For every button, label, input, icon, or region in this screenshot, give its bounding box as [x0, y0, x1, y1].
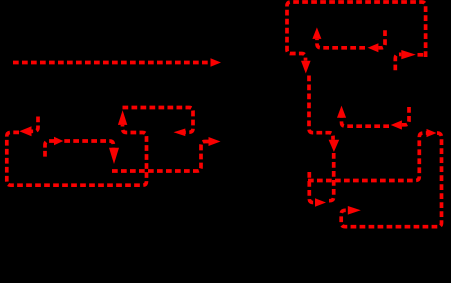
node P7 head down: [329, 140, 340, 152]
wire P4b line right then down: [64, 141, 113, 148]
wire P8 inner line left-up: [317, 39, 365, 48]
wire P11 mid line left-up: [342, 118, 390, 126]
wire P1 elbow down-left: [32, 117, 39, 132]
node P10 head right: [401, 50, 416, 59]
node P13 head right: [427, 129, 437, 137]
wire P6 top right rectangle: [287, 2, 426, 61]
wire P5 lower line to right elbow: [112, 142, 209, 172]
node P1 head left: [19, 126, 31, 136]
node P4b head down: [109, 148, 119, 164]
wire P12 mid elbow down-left: [402, 107, 409, 125]
node P16 head right: [348, 206, 361, 215]
wire P7 long descender to box: [309, 76, 333, 140]
node P14 head right: [315, 198, 326, 207]
node P4a head right: [54, 137, 63, 146]
wire P15 descender ending left: [328, 153, 334, 201]
node P2 head up: [118, 110, 127, 125]
node P8 head up: [312, 27, 321, 39]
wire P9 inner elbow down-left: [378, 30, 385, 48]
node P12 head left: [391, 120, 402, 129]
node P6 head down: [301, 61, 311, 74]
wire P10 stub up-right: [395, 54, 401, 70]
wire P10 trailing dash: [418, 53, 425, 57]
wire long top arrow shaft: [13, 61, 214, 65]
node long top arrow head: [211, 58, 222, 67]
node P9 head left: [368, 43, 379, 52]
node P3 head left: [174, 129, 186, 137]
wire P4a stub up-right: [45, 141, 54, 157]
node P5 head right: [209, 137, 221, 146]
node P11 head up: [337, 106, 346, 118]
wire P14 small loop with arrow: [309, 172, 315, 203]
wire P13 lower line to top-right arrow: [308, 133, 427, 181]
wire P3 middle top box: [123, 108, 194, 133]
wire P2 big left loop: [7, 125, 147, 186]
wire P16 big bottom loop: [341, 133, 441, 227]
